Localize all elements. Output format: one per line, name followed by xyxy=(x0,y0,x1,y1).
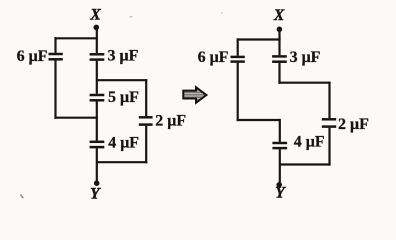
wire: right branch upper (right circuit) xyxy=(328,82,330,119)
node X (right circuit) xyxy=(277,27,283,33)
wire: left main 3uF to 5uF xyxy=(96,61,98,94)
capacitor C 3uF (left circuit) xyxy=(90,54,105,59)
wire: right branch lower (left circuit) xyxy=(145,126,147,164)
wire: left mid-right horizontal xyxy=(97,79,148,81)
capacitor C 4uF (left circuit) xyxy=(90,142,105,147)
wire: right main X to 3uF xyxy=(278,29,280,55)
node X (left circuit) xyxy=(94,25,100,31)
wire: left branch upper xyxy=(54,37,56,53)
wire: right left-branch connector horizontal xyxy=(237,119,281,121)
capacitor C 2uF (left circuit) xyxy=(139,117,153,124)
capacitor C 6uF (left circuit) xyxy=(49,54,63,59)
wire: right main 4uF to Y xyxy=(279,149,281,185)
wire: right bottom horizontal xyxy=(280,163,331,165)
svg-text:3 μF: 3 μF xyxy=(108,48,139,65)
wire: left top horizontal xyxy=(54,37,98,39)
capacitor C 2uF (right circuit) xyxy=(322,119,336,126)
capacitor C 5uF (left circuit) xyxy=(90,95,105,100)
wire: right branch lower (right circuit) xyxy=(328,128,330,166)
capacitor C 6uF (right circuit) xyxy=(231,57,245,62)
wire: right main 3uF to jog corner xyxy=(278,63,280,84)
scan speck near left X xyxy=(130,15,133,18)
wire: left main 5uF to 4uF xyxy=(96,101,98,140)
svg-text:3 μF: 3 μF xyxy=(290,49,321,66)
wire: right lower main connector to 4uF xyxy=(279,119,281,142)
scan artifact tick (bottom left) xyxy=(21,195,24,199)
svg-text:Y: Y xyxy=(90,185,101,202)
node Y (left circuit) xyxy=(94,180,100,186)
scan speck upper right xyxy=(221,12,223,14)
svg-text:6 μF: 6 μF xyxy=(198,49,229,66)
svg-text:6 μF: 6 μF xyxy=(17,48,48,65)
wire: jog horizontal (right circuit) xyxy=(278,82,330,84)
svg-text:4 μF: 4 μF xyxy=(294,133,325,150)
wire: right branch upper (left circuit) xyxy=(145,79,147,116)
wire: left bottom-of-branch horizontal xyxy=(54,117,98,119)
wire: right left-branch upper xyxy=(237,38,239,55)
svg-text:2 μF: 2 μF xyxy=(155,112,186,129)
svg-text:2 μF: 2 μF xyxy=(338,116,369,133)
wire: right top horizontal xyxy=(237,38,281,40)
wire: left main 4uF to Y xyxy=(96,148,98,183)
node Y (right circuit) xyxy=(276,182,282,188)
svg-text:X: X xyxy=(89,6,101,23)
arrow between circuits xyxy=(183,87,206,103)
svg-text:4 μF: 4 μF xyxy=(108,134,139,151)
wire: left bottom-right horizontal xyxy=(97,161,148,163)
wire: left main X to 3uF xyxy=(96,27,98,53)
wire: right left-branch lower xyxy=(237,63,239,121)
capacitor C 4uF (right circuit) xyxy=(272,143,287,148)
svg-text:Y: Y xyxy=(275,184,286,201)
capacitor C 3uF (right circuit) xyxy=(272,56,287,61)
svg-text:X: X xyxy=(273,7,285,24)
svg-text:5 μF: 5 μF xyxy=(108,89,139,106)
wire: left branch lower xyxy=(54,60,56,118)
